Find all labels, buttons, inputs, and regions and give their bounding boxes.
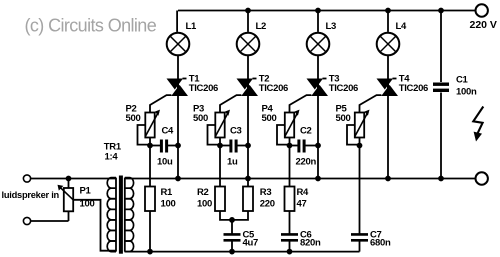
svg-text:R4: R4 — [297, 187, 310, 198]
label L3 — [326, 21, 337, 32]
symbol mains hazard arrow — [473, 107, 483, 142]
wire C5 to rail — [231, 240, 233, 251]
wire lamp L3 top stub — [317, 11, 319, 32]
label C1 — [456, 75, 477, 98]
svg-text:500: 500 — [262, 113, 277, 124]
wire main T4 to return wire — [387, 146, 389, 179]
resistor R3 — [243, 187, 253, 212]
label L1 — [186, 21, 198, 32]
label T1 — [189, 74, 218, 95]
wire node P2 to R1 — [149, 146, 151, 187]
label P5 — [336, 104, 351, 125]
wire C1 to return wire — [440, 93, 442, 179]
node junction C5 top — [230, 218, 235, 223]
wire P3 wiper loop — [208, 125, 221, 145]
label R2 — [197, 187, 212, 210]
label P1 — [80, 186, 95, 210]
label R3 — [260, 187, 275, 210]
wire P1 top stub — [68, 179, 70, 189]
capacitor C2 — [299, 140, 304, 153]
wire secondary return — [125, 178, 476, 180]
wire lamp L2 to triac T2 — [247, 55, 249, 78]
svg-text:P1: P1 — [80, 186, 92, 197]
label P2 — [126, 104, 141, 125]
node junction main T3 — [316, 143, 321, 148]
svg-text:1:4: 1:4 — [105, 152, 119, 163]
label C6 — [300, 230, 321, 249]
node junction C1 return — [439, 176, 444, 181]
svg-text:220 V: 220 V — [470, 19, 497, 31]
potentiometer P2 — [145, 110, 160, 138]
wire capacitor C3 to main line — [238, 145, 249, 147]
wire pot P2 bottom stub — [149, 138, 151, 146]
triac T2 — [237, 79, 259, 97]
label C2 — [296, 126, 317, 168]
wire pot P5 bottom stub — [359, 138, 361, 146]
wire node P4 to capacitor C2 — [290, 145, 298, 147]
svg-text:C1: C1 — [456, 75, 469, 86]
svg-text:TIC206: TIC206 — [259, 83, 288, 94]
node junction top L3 — [316, 8, 321, 13]
node junction P1 top — [66, 176, 71, 181]
triac T1 — [167, 79, 189, 97]
wire lamp L4 top stub — [387, 11, 389, 32]
node junction top L2 — [246, 8, 251, 13]
label T4 — [399, 74, 428, 95]
wire P1 bottom stub — [68, 211, 70, 221]
label P3 — [193, 104, 208, 125]
svg-text:L1: L1 — [186, 21, 198, 32]
wire main T3 to return wire — [317, 146, 319, 179]
svg-text:4u7: 4u7 — [243, 237, 258, 248]
svg-text:220: 220 — [260, 199, 275, 210]
svg-text:C4: C4 — [162, 126, 175, 137]
label T2 — [259, 74, 288, 95]
svg-text:(c) Circuits Online: (c) Circuits Online — [25, 15, 157, 35]
svg-text:47: 47 — [297, 199, 307, 210]
capacitor C5 — [224, 234, 241, 240]
svg-text:500: 500 — [193, 113, 208, 124]
capacitor C1 — [433, 84, 449, 90]
terminal 220V — [476, 4, 488, 16]
node junction pot P5 — [357, 143, 362, 148]
svg-text:100: 100 — [197, 199, 212, 210]
wire gate T2 to pot P3 — [220, 95, 241, 112]
label T3 — [329, 74, 358, 95]
wire node P3 to R2 — [219, 146, 221, 187]
wire lamp L4 to triac T4 — [387, 55, 389, 78]
svg-text:R2: R2 — [197, 187, 209, 198]
wire node P4 to R4 — [289, 146, 291, 187]
node junction pot P3 — [218, 143, 223, 148]
svg-text:10u: 10u — [157, 157, 173, 168]
lamp L1 — [167, 33, 190, 56]
svg-text:820n: 820n — [300, 237, 321, 248]
lamp L2 — [237, 33, 260, 56]
wire node P3 to capacitor C3 — [220, 145, 230, 147]
wire P5 wiper loop — [347, 125, 360, 145]
label C5 — [243, 230, 258, 249]
svg-text:220n: 220n — [296, 157, 317, 168]
triac T3 — [307, 79, 329, 97]
label L4 — [396, 21, 408, 32]
wire capacitor C4 to main line — [168, 145, 178, 147]
svg-text:TIC206: TIC206 — [329, 83, 358, 94]
label R1 — [161, 187, 176, 210]
svg-text:500: 500 — [336, 113, 351, 124]
potentiometer P3 — [215, 110, 230, 138]
wire pot P3 bottom stub — [219, 138, 221, 146]
node junction top L4 — [386, 8, 391, 13]
wire gate T4 to pot P5 — [360, 95, 382, 112]
wire top to C1 — [440, 11, 442, 83]
svg-text:L4: L4 — [396, 21, 408, 32]
node junction return T3 — [316, 176, 321, 181]
label C7 — [370, 230, 391, 249]
node junction top C1 — [439, 8, 444, 13]
label TR1 — [104, 142, 122, 163]
svg-text:luidspreker in: luidspreker in — [2, 190, 60, 200]
label P4 — [262, 104, 277, 125]
resistor R1 — [145, 187, 155, 212]
wire P4 wiper loop — [277, 125, 290, 145]
node junction return T2 — [246, 176, 251, 181]
wire lamp L3 to triac T3 — [317, 55, 319, 78]
svg-text:100: 100 — [161, 199, 176, 210]
potentiometer P1 — [58, 185, 74, 212]
node junction return T4 — [386, 176, 391, 181]
terminal output right — [476, 172, 488, 184]
transformer TR1 secondary winding — [125, 178, 134, 252]
triac T4 — [377, 79, 399, 97]
wire node P5 to C7 — [359, 146, 361, 235]
lamp L3 — [307, 33, 330, 56]
potentiometer P4 — [285, 110, 300, 138]
wire C7 to rail end — [359, 240, 361, 251]
terminal input lower — [23, 217, 30, 224]
wire lamp L1 to triac T1 — [177, 55, 179, 78]
node junction main T1 — [176, 143, 181, 148]
transformer TR1 core — [119, 176, 122, 253]
wire P2 wiper loop — [138, 125, 151, 145]
wire bottom rail — [125, 251, 360, 253]
label 220 V — [470, 19, 497, 31]
node junction pot P4 — [287, 143, 292, 148]
label luidspreker in — [2, 190, 60, 200]
wire main T1 to return wire — [177, 146, 179, 179]
svg-text:100n: 100n — [456, 87, 477, 98]
svg-text:1u: 1u — [227, 157, 238, 168]
wire triac T4 to node — [387, 96, 389, 146]
wire R4 to C6 — [289, 211, 291, 234]
label L2 — [256, 21, 267, 32]
node junction C5 rail — [230, 249, 235, 254]
capacitor C7 — [351, 234, 368, 240]
svg-text:R1: R1 — [161, 187, 174, 198]
wire C6 to rail — [289, 240, 291, 251]
wire junction to C5 — [231, 220, 233, 235]
capacitor C4 — [161, 140, 166, 153]
svg-text:R3: R3 — [260, 187, 272, 198]
capacitor C6 — [281, 234, 298, 240]
wire triac T2 to node — [247, 96, 249, 146]
wire R2 R3 to C5 — [220, 211, 248, 220]
node junction C6 rail — [287, 249, 292, 254]
wire node T2 to R3 — [247, 179, 249, 187]
wire triac T3 to node — [317, 96, 319, 146]
wire gate T3 to pot P4 — [290, 95, 312, 112]
node junction return T1 — [176, 176, 181, 181]
wire triac T1 to node — [177, 96, 179, 146]
wire capacitor C2 to main line — [306, 145, 319, 147]
node junction main T2 — [246, 143, 251, 148]
label C3 — [227, 126, 242, 168]
node junction pot P2 — [148, 143, 153, 148]
wire main T2 to return wire — [247, 146, 249, 179]
svg-text:500: 500 — [126, 113, 141, 124]
resistor R2 — [215, 187, 225, 212]
wire pot P4 bottom stub — [289, 138, 291, 146]
svg-text:TIC206: TIC206 — [189, 83, 218, 94]
label C4 — [157, 126, 174, 168]
potentiometer P5 — [355, 110, 370, 138]
transformer TR1 primary winding — [107, 178, 116, 252]
terminal input upper — [23, 175, 30, 182]
wire top 220V rail — [177, 11, 476, 32]
wire gate T1 to pot P2 — [150, 95, 171, 112]
svg-text:C2: C2 — [300, 126, 312, 137]
svg-text:L2: L2 — [256, 21, 267, 32]
wire R1 to rail — [149, 211, 151, 252]
node junction R1 rail — [148, 249, 153, 254]
svg-text:680n: 680n — [370, 237, 391, 248]
watermark Circuits Online — [25, 15, 157, 35]
wire node P2 to capacitor C4 — [150, 145, 160, 147]
label R4 — [297, 187, 310, 210]
lamp L4 — [377, 33, 400, 56]
wire input lower to P1 — [31, 220, 69, 222]
wire lamp L2 top stub — [247, 11, 249, 32]
svg-text:C3: C3 — [230, 126, 242, 137]
svg-text:L3: L3 — [326, 21, 337, 32]
svg-text:TIC206: TIC206 — [399, 83, 428, 94]
resistor R4 — [285, 187, 295, 212]
capacitor C3 — [231, 140, 236, 153]
wire P1 wiper to primary bottom — [73, 200, 116, 251]
wire input upper to transformer — [31, 178, 116, 180]
